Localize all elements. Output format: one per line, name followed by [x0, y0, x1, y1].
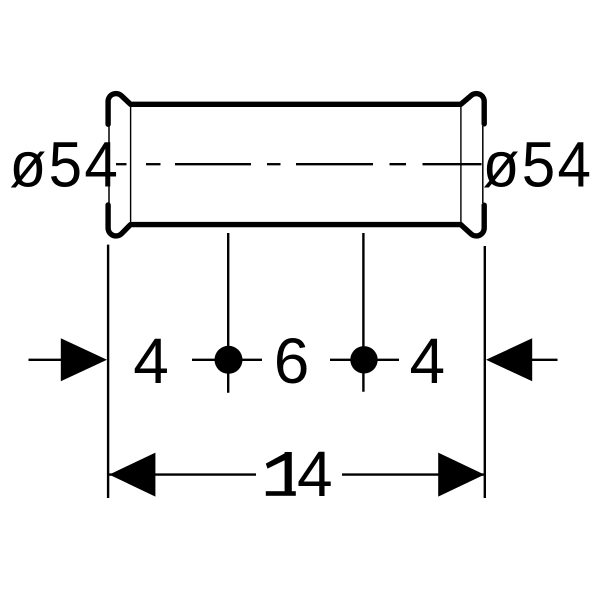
centerline dash-dot [116, 163, 482, 165]
extension line left [107, 245, 109, 498]
svg-text:4: 4 [133, 325, 169, 397]
extension line right [484, 246, 486, 498]
left arrow [61, 338, 107, 381]
left arrow of 14 [109, 453, 155, 497]
coupling body bottom outline with press beads [108, 205, 484, 236]
svg-text:6: 6 [274, 325, 310, 397]
dimension row 4-6-4: left leader [29, 359, 65, 361]
svg-text:4: 4 [410, 325, 446, 397]
stub around dot 2 [330, 359, 399, 361]
node line at first insert mark [227, 233, 229, 393]
right bead transition line [460, 105, 462, 226]
coupling body top outline with press beads [108, 94, 484, 125]
right bead edge thin connector [482, 126, 484, 203]
right leader [528, 359, 558, 361]
left bead transition line [130, 105, 132, 226]
svg-text:4: 4 [297, 438, 333, 510]
right arrow of 14 [438, 453, 484, 497]
dot 1 [215, 346, 243, 374]
dim text 14: custom 1 with foot [266, 452, 296, 496]
svg-text:ø54: ø54 [483, 130, 594, 201]
dot 2 [350, 346, 377, 373]
label ø54 right [483, 130, 594, 201]
label ø54 left [10, 130, 121, 201]
right segment [342, 473, 484, 475]
svg-text:ø54: ø54 [10, 130, 121, 201]
dimension row 14: left segment [109, 473, 256, 475]
node line at second insert mark [362, 233, 364, 392]
stub around dot 1 [192, 359, 262, 361]
right arrow [486, 338, 532, 381]
left bead edge thin connector [108, 126, 110, 203]
